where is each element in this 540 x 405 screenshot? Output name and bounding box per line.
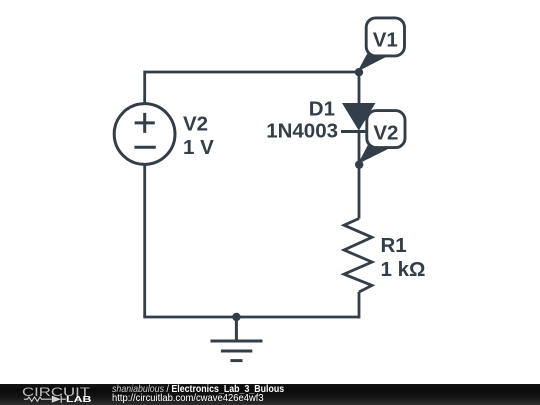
label R1 bbox=[381, 234, 426, 281]
resistor R1 bbox=[344, 219, 372, 293]
wire right: node V1 to diode bbox=[358, 72, 361, 104]
footer credit text line 1 bbox=[112, 385, 284, 395]
footer credit text line 2 bbox=[112, 394, 264, 404]
svg-text:1 kΩ: 1 kΩ bbox=[381, 258, 426, 281]
svg-text:V2: V2 bbox=[183, 112, 208, 135]
wire top horizontal bbox=[145, 71, 359, 74]
wire left vertical lower bbox=[143, 164, 146, 317]
node dot V1 bbox=[355, 68, 363, 76]
wire left vertical upper bbox=[143, 71, 146, 104]
node dot V2 bbox=[355, 160, 363, 168]
wire right: resistor to bottom bbox=[358, 292, 361, 318]
circuitlab logo bbox=[0, 384, 110, 405]
node flag V2 box bbox=[367, 111, 405, 148]
svg-text:1N4003: 1N4003 bbox=[266, 119, 338, 142]
diode D1 bbox=[341, 103, 377, 132]
ground junction dot bbox=[232, 313, 240, 321]
svg-text:1 V: 1 V bbox=[183, 136, 214, 159]
node flag V2 tail bbox=[358, 141, 388, 164]
svg-text:V2: V2 bbox=[373, 122, 398, 145]
svg-text:D1: D1 bbox=[309, 97, 335, 120]
label D1 bbox=[266, 97, 338, 142]
svg-text:LAB: LAB bbox=[66, 395, 92, 404]
wire bottom horizontal bbox=[143, 316, 359, 319]
voltage source V2 bbox=[114, 104, 175, 165]
footer bar bbox=[0, 384, 540, 405]
node flag V1 tail bbox=[358, 49, 389, 72]
svg-text:V1: V1 bbox=[373, 29, 398, 52]
ground bbox=[211, 317, 263, 361]
label V2 value bbox=[183, 112, 214, 159]
node flag V1 box bbox=[366, 18, 404, 56]
wire right: diode to resistor bbox=[358, 132, 361, 219]
svg-text:R1: R1 bbox=[381, 234, 407, 257]
